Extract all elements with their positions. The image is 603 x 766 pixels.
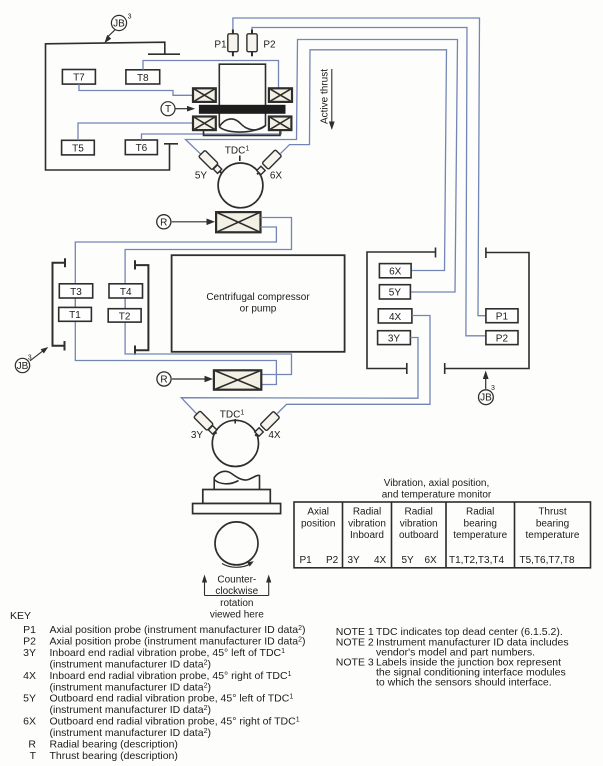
thrust label T circle with arrow: [161, 102, 195, 116]
wire 6X probe to module 6X: [281, 50, 447, 271]
svg-text:Axial position probe (instrume: Axial position probe (instrument manufac…: [50, 636, 306, 648]
svg-text:Inboard end radial vibration p: Inboard end radial vibration probe, 45° …: [50, 670, 292, 682]
svg-text:T2: T2: [119, 311, 131, 322]
wire P2 probe to module P2: [252, 28, 486, 336]
svg-text:5Y: 5Y: [23, 693, 36, 705]
pedestal block: [203, 490, 270, 504]
probe 4X (inboard, 45 deg right): [252, 411, 280, 439]
svg-text:T: T: [30, 750, 37, 762]
svg-text:5Y: 5Y: [195, 171, 208, 182]
thrust pad top-left: [193, 88, 216, 102]
wire P1 probe to module P1: [233, 18, 486, 316]
svg-text:temperature: temperature: [526, 530, 580, 541]
svg-text:5Y: 5Y: [402, 555, 415, 566]
monitor table: [294, 502, 591, 568]
svg-text:JB: JB: [480, 393, 492, 404]
module T1: [59, 307, 92, 321]
JB4 callout circle JB3: [479, 371, 496, 405]
monitor title: [382, 478, 492, 501]
JB2 callout circle JB3: [15, 347, 48, 373]
svg-text:P2: P2: [496, 334, 509, 345]
radial bearing outboard (X-box): [216, 212, 260, 232]
shaft end circle: [215, 522, 258, 565]
svg-text:4X: 4X: [389, 312, 402, 323]
svg-text:(instrument manufacturer ID da: (instrument manufacturer ID data2): [50, 727, 211, 739]
active thrust label and arrow: [320, 69, 335, 130]
R callout (inboard radial bearing): [157, 372, 213, 386]
svg-text:3Y: 3Y: [23, 647, 36, 659]
svg-text:Thrust bearing (description): Thrust bearing (description): [50, 750, 178, 762]
svg-text:T: T: [165, 104, 171, 115]
svg-text:P1: P1: [23, 624, 36, 636]
module 3Y: [378, 331, 411, 345]
svg-text:JB: JB: [17, 361, 29, 372]
svg-text:T1,T2,T3,T4: T1,T2,T3,T4: [449, 555, 504, 566]
svg-text:Centrifugal compressor: Centrifugal compressor: [206, 292, 310, 303]
thrust pad top-right: [269, 88, 292, 102]
label 5Y: [195, 171, 208, 182]
module T8: [126, 70, 160, 84]
svg-text:(instrument manufacturer ID da: (instrument manufacturer ID data2): [50, 681, 211, 693]
svg-text:3: 3: [491, 385, 495, 392]
wire T4 to outboard radial bearing: [125, 218, 291, 323]
svg-text:vibration: vibration: [348, 518, 386, 529]
module T5: [62, 140, 95, 155]
wire T5 to bottom-left thrust pad: [78, 123, 193, 140]
svg-text:P1: P1: [214, 40, 227, 51]
module T2: [108, 309, 141, 323]
module T3: [59, 284, 92, 298]
probe P2 (axial): [247, 30, 276, 57]
junction box JB2 (radial temps) left bracket: [53, 258, 66, 350]
svg-text:T1: T1: [69, 310, 81, 321]
svg-text:Radial: Radial: [353, 507, 381, 518]
svg-text:Thrust: Thrust: [538, 507, 567, 518]
svg-text:P2: P2: [263, 40, 276, 51]
wire 3Y probe to module 3Y: [181, 338, 418, 416]
svg-text:6X: 6X: [425, 555, 438, 566]
R callout (outboard radial bearing): [157, 215, 215, 229]
module 4X: [378, 309, 412, 323]
wire 4X probe to module 4X: [277, 316, 430, 414]
svg-text:rotation: rotation: [220, 598, 253, 609]
svg-text:vibration: vibration: [400, 518, 438, 529]
svg-text:6X: 6X: [23, 716, 36, 728]
probe 5Y (outboard, 45 deg left): [199, 150, 225, 176]
svg-text:R: R: [160, 218, 167, 229]
svg-text:JB: JB: [113, 18, 125, 29]
junction box JB3 (vibration modules) outline: [367, 248, 436, 375]
svg-text:T4: T4: [120, 287, 132, 298]
svg-text:Axial: Axial: [307, 507, 329, 518]
svg-text:temperature: temperature: [453, 530, 507, 541]
svg-text:P2: P2: [23, 636, 36, 648]
svg-text:Counter-: Counter-: [217, 575, 256, 586]
svg-text:Inboard: Inboard: [350, 530, 384, 541]
thrust pad bottom-right: [269, 117, 292, 131]
svg-text:R: R: [160, 375, 167, 386]
junction box JB1 (thrust/axial, top-left) outline: [46, 42, 181, 170]
svg-text:NOTE 3: NOTE 3: [336, 657, 374, 669]
svg-text:KEY: KEY: [10, 610, 31, 622]
wire T3 to outboard radial bearing: [75, 227, 276, 321]
svg-text:4X: 4X: [374, 555, 387, 566]
svg-text:T6: T6: [136, 143, 148, 154]
svg-text:(instrument manufacturer ID da: (instrument manufacturer ID data2): [50, 704, 211, 716]
module T4: [109, 284, 143, 298]
wire T7 to top-left thrust pad: [79, 84, 193, 95]
thrust collar (black): [199, 105, 286, 114]
svg-text:Radial bearing (description): Radial bearing (description): [50, 738, 178, 750]
base plate: [193, 504, 281, 514]
label 4X: [268, 430, 281, 441]
svg-text:3: 3: [128, 14, 132, 21]
svg-text:3Y: 3Y: [348, 555, 361, 566]
svg-text:Outboard end radial vibration: Outboard end radial vibration probe, 45°…: [50, 716, 300, 728]
label 6X: [270, 171, 283, 182]
radial bearing inboard (X-box): [214, 370, 261, 389]
svg-text:Active thrust: Active thrust: [320, 69, 331, 124]
wire T8 to top-right thrust pad: [143, 61, 279, 89]
probe 3Y (inboard, 45 deg left): [194, 411, 220, 437]
key heading: [10, 610, 31, 622]
svg-text:position: position: [301, 518, 335, 529]
label 3Y: [191, 430, 204, 441]
wire T6 to bottom-right thrust pad: [142, 130, 282, 140]
svg-text:T7: T7: [73, 73, 85, 84]
centrifugal compressor body: [172, 255, 345, 352]
svg-text:4X: 4X: [268, 430, 281, 441]
svg-text:T3: T3: [70, 287, 82, 298]
coupling / shaft break symbol: [214, 471, 259, 489]
svg-text:P1: P1: [496, 312, 509, 323]
svg-text:R: R: [28, 738, 36, 750]
svg-text:3Y: 3Y: [388, 334, 401, 345]
svg-text:outboard: outboard: [399, 530, 438, 541]
probe 6X (outboard, 45 deg right): [254, 150, 282, 178]
svg-text:6X: 6X: [270, 171, 283, 182]
svg-text:4X: 4X: [23, 670, 36, 682]
thrust housing lower shelf: [204, 131, 281, 136]
svg-text:T8: T8: [137, 73, 149, 84]
svg-text:to which the sensors should in: to which the sensors should interface.: [376, 677, 552, 689]
svg-text:bearing: bearing: [464, 518, 497, 529]
svg-text:3Y: 3Y: [191, 430, 204, 441]
svg-text:T5: T5: [72, 143, 84, 154]
shaft section TDC1 (outboard): [218, 146, 263, 208]
module 6X: [379, 264, 411, 278]
wire 5Y probe to module 5Y: [186, 40, 458, 293]
svg-text:Inboard end radial vibration p: Inboard end radial vibration probe, 45° …: [50, 647, 286, 659]
svg-text:P2: P2: [326, 555, 339, 566]
module P2: [486, 331, 518, 345]
module P1: [486, 309, 518, 323]
key entries: [23, 624, 305, 762]
svg-text:P1: P1: [300, 555, 313, 566]
JB1 callout circle JB3: [104, 14, 131, 44]
wire T2 to inboard radial bearing: [125, 284, 291, 375]
svg-text:Radial: Radial: [405, 507, 433, 518]
svg-text:Axial position probe (instrume: Axial position probe (instrument manufac…: [50, 624, 306, 636]
svg-text:and temperature monitor: and temperature monitor: [382, 490, 492, 501]
shaft section TDC2 (inboard): [212, 410, 258, 467]
wire T1 to inboard radial bearing: [75, 284, 276, 385]
svg-text:5Y: 5Y: [389, 288, 402, 299]
svg-text:(instrument manufacturer ID da: (instrument manufacturer ID data2): [50, 659, 211, 671]
svg-text:Vibration, axial position,: Vibration, axial position,: [384, 478, 489, 489]
module 5Y: [379, 285, 410, 299]
notes: [336, 626, 569, 689]
svg-text:T5,T6,T7,T8: T5,T6,T7,T8: [520, 555, 575, 566]
svg-text:6X: 6X: [389, 267, 402, 278]
svg-text:Outboard end radial vibration: Outboard end radial vibration probe, 45°…: [50, 693, 294, 705]
svg-text:NOTE 2: NOTE 2: [336, 636, 374, 648]
svg-text:bearing: bearing: [536, 518, 569, 529]
thrust pad bottom-left: [193, 117, 216, 131]
junction box JB4 (axial modules) outline: [445, 248, 529, 375]
module T6: [125, 140, 157, 155]
thrust housing body: [219, 64, 265, 132]
rotation direction arc arrow: [222, 561, 254, 567]
module T7: [62, 70, 95, 85]
svg-text:or pump: or pump: [240, 304, 277, 315]
svg-text:viewed here: viewed here: [210, 610, 264, 621]
junction box JB2 middle bracket: [135, 260, 148, 354]
probe P1 (axial): [214, 30, 238, 57]
svg-text:Radial: Radial: [466, 507, 494, 518]
rotation caption with up arrows: [202, 575, 271, 621]
